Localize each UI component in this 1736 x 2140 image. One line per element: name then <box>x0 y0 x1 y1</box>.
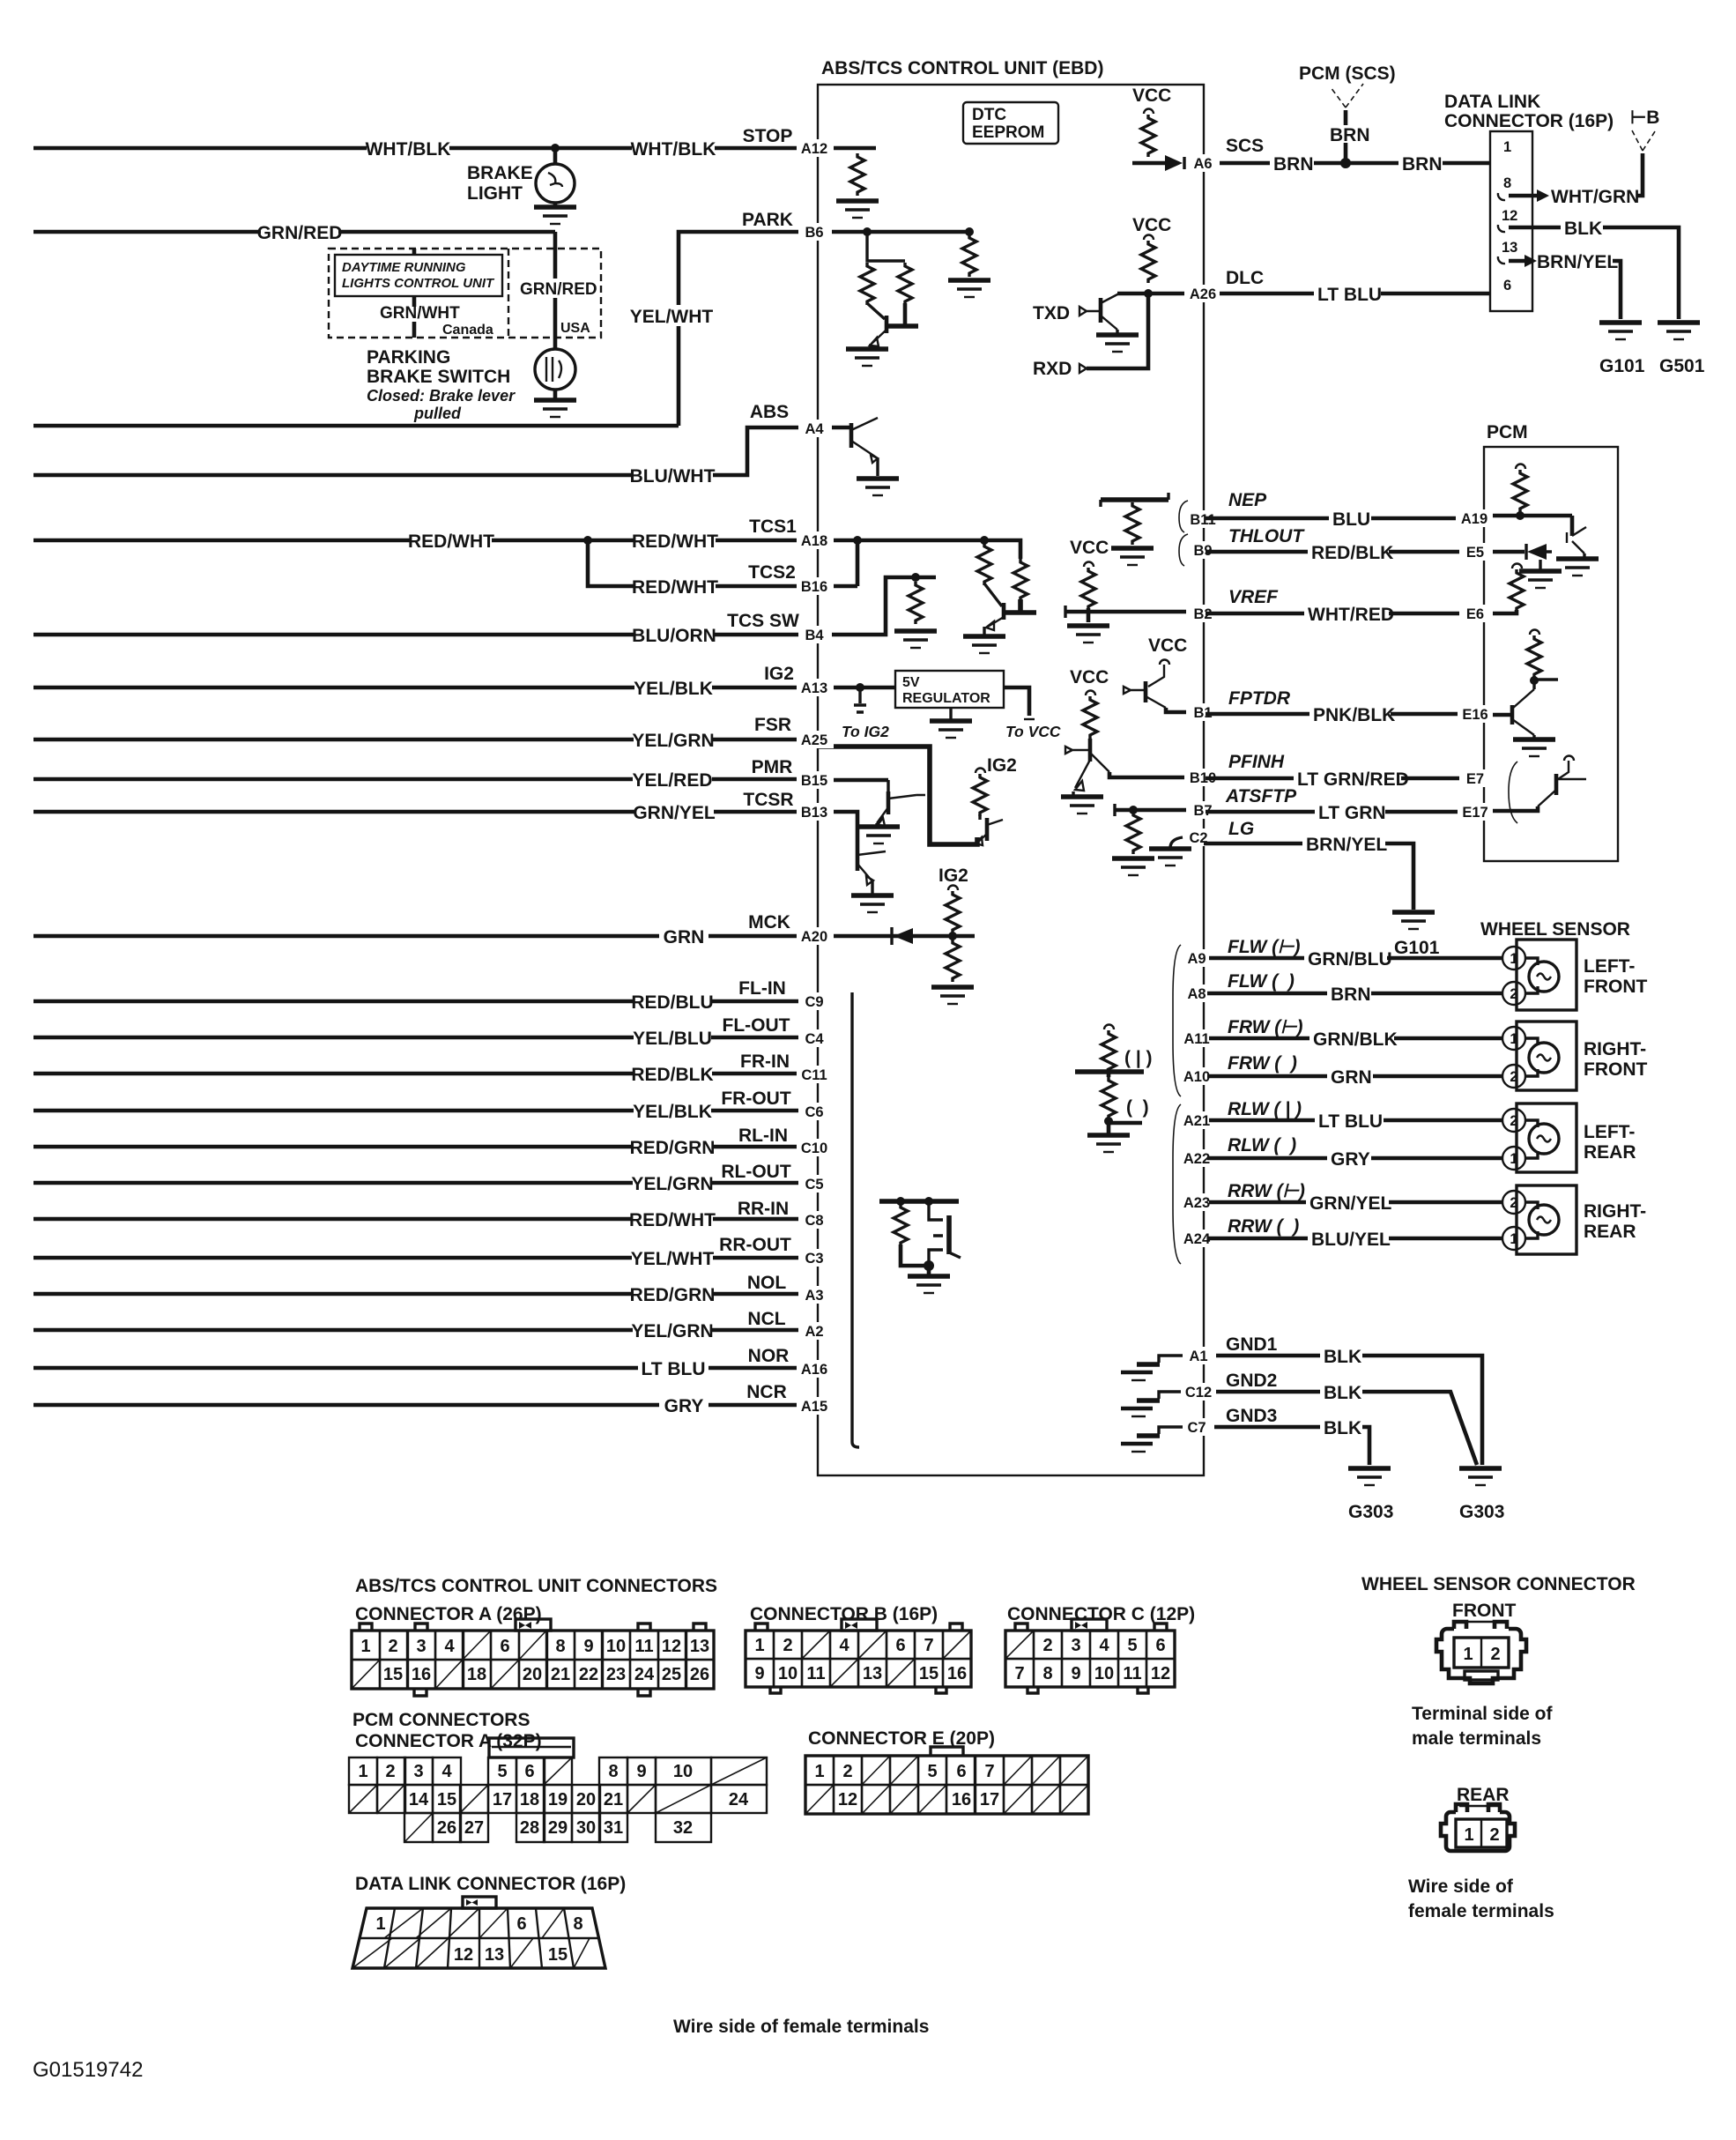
svg-text:LIGHTS CONTROL UNIT: LIGHTS CONTROL UNIT <box>342 276 495 291</box>
wire SCS BRN <box>1220 161 1490 166</box>
ground B11 <box>1111 548 1154 565</box>
svg-text:7: 7 <box>984 1762 994 1781</box>
svg-text:1: 1 <box>375 1914 385 1934</box>
svg-text:9: 9 <box>754 1664 764 1683</box>
transistor Q E7 E17 <box>1564 756 1574 762</box>
label WHT/BLK <box>367 137 449 159</box>
ground A18 transistor <box>963 636 1005 653</box>
svg-text:CONNECTOR E (20P): CONNECTOR E (20P) <box>808 1728 995 1749</box>
svg-text:3: 3 <box>413 1762 423 1781</box>
box 5V regulator <box>895 671 1004 708</box>
label RED/WHT <box>411 530 492 551</box>
svg-text:18: 18 <box>520 1790 539 1809</box>
svg-text:BLK: BLK <box>1324 1418 1361 1438</box>
terminal A3 <box>798 1286 832 1304</box>
wire A25 internal FSR <box>818 747 977 844</box>
svg-text:LT GRN: LT GRN <box>1318 803 1386 823</box>
svg-text:CONNECTOR A (26P): CONNECTOR A (26P) <box>355 1604 542 1624</box>
svg-text:GRN/WHT: GRN/WHT <box>380 304 460 323</box>
terminal B9 <box>1186 541 1220 559</box>
wire regulator to VCC <box>1004 687 1029 716</box>
ground E5 <box>1519 571 1562 588</box>
svg-text:8: 8 <box>1042 1664 1052 1683</box>
svg-text:female terminals: female terminals <box>1408 1901 1554 1921</box>
svg-text:LEFT-: LEFT- <box>1584 1122 1635 1142</box>
label YEL/RED <box>633 769 712 790</box>
svg-text:3: 3 <box>416 1637 426 1656</box>
label RED/WHT <box>634 530 716 551</box>
svg-text:26: 26 <box>437 1818 456 1838</box>
svg-text:A3: A3 <box>805 1288 823 1304</box>
svg-text:21: 21 <box>604 1790 623 1809</box>
svg-text:1: 1 <box>1510 1231 1517 1247</box>
svg-text:REGULATOR: REGULATOR <box>902 691 990 706</box>
connector grid A 26P <box>352 1619 714 1696</box>
svg-text:A16: A16 <box>801 1362 827 1378</box>
transistor Q B6 <box>867 303 885 319</box>
svg-text:14: 14 <box>409 1790 429 1809</box>
svg-text:8: 8 <box>555 1637 565 1656</box>
label USA <box>559 317 594 335</box>
resistor B4 <box>909 582 923 624</box>
svg-text:12: 12 <box>1151 1664 1170 1683</box>
wire LT BLU to A16 NOR <box>33 1366 818 1371</box>
wire GRN/RED <box>33 230 555 234</box>
terminal A2 <box>798 1322 832 1340</box>
svg-text:B4: B4 <box>805 628 824 643</box>
svg-text:8: 8 <box>608 1762 618 1781</box>
svg-text:ABS: ABS <box>750 402 789 422</box>
svg-text:3: 3 <box>1071 1636 1080 1655</box>
svg-text:TCS SW: TCS SW <box>727 611 799 631</box>
ground A12 <box>836 201 879 218</box>
svg-text:GRN/RED: GRN/RED <box>257 223 343 243</box>
svg-text:LT BLU: LT BLU <box>641 1359 705 1379</box>
svg-text:2: 2 <box>1510 1069 1517 1085</box>
svg-text:6: 6 <box>516 1914 526 1934</box>
svg-text:GND3: GND3 <box>1226 1406 1277 1426</box>
terminal A24 <box>1179 1230 1216 1247</box>
label IG2 node <box>976 769 985 774</box>
terminal A22 <box>1179 1149 1216 1167</box>
svg-text:20: 20 <box>523 1665 542 1684</box>
svg-text:B15: B15 <box>801 773 827 789</box>
connector wheel sensor front <box>1436 1622 1526 1683</box>
brace E7 E17 <box>1509 762 1517 823</box>
terminal C10 <box>797 1139 834 1156</box>
svg-text:12: 12 <box>1502 208 1517 224</box>
svg-text:Canada: Canada <box>442 323 493 338</box>
wire RED/GRN to A3 NOL <box>33 1292 818 1297</box>
svg-text:Terminal side of: Terminal side of <box>1412 1704 1553 1724</box>
svg-text:10: 10 <box>606 1637 626 1656</box>
svg-text:YEL/RED: YEL/RED <box>632 770 712 791</box>
svg-text:FR-OUT: FR-OUT <box>721 1089 790 1109</box>
connector cone +B <box>1632 129 1657 151</box>
wire GND1 BLK <box>1216 1356 1482 1465</box>
ground parking brake switch <box>534 400 576 417</box>
terminal E16 <box>1458 705 1493 723</box>
wire A18-B16 link <box>818 540 857 586</box>
svg-text:2: 2 <box>1510 986 1517 1002</box>
wire BRN up to PCM (SCS) <box>1344 110 1348 163</box>
svg-text:GRN/BLK: GRN/BLK <box>1313 1029 1398 1050</box>
svg-text:A10: A10 <box>1183 1069 1210 1085</box>
svg-text:1: 1 <box>1510 1031 1517 1047</box>
svg-text:13: 13 <box>485 1945 504 1965</box>
terminal E7 <box>1459 769 1491 787</box>
svg-text:FL-OUT: FL-OUT <box>723 1015 790 1036</box>
node junction brake light <box>551 144 560 152</box>
wire RED/BLU to C9 FL-IN <box>33 999 818 1004</box>
svg-text:6: 6 <box>895 1636 905 1655</box>
wire B13 internal <box>818 812 857 848</box>
svg-text:RL-IN: RL-IN <box>738 1126 788 1146</box>
wire GND3 BLK <box>1214 1427 1369 1465</box>
wire A6 internal with arrow <box>1132 161 1172 166</box>
terminal A15 <box>797 1397 834 1415</box>
ground E16 <box>1513 739 1555 756</box>
connector DLC trapezoid <box>352 1897 605 1968</box>
ground hook A1 <box>1159 1356 1184 1363</box>
ground B13 <box>851 895 894 912</box>
svg-text:RXD: RXD <box>1033 359 1072 379</box>
svg-text:10: 10 <box>778 1664 798 1683</box>
svg-text:STOP: STOP <box>743 126 793 146</box>
svg-text:GND1: GND1 <box>1226 1334 1278 1355</box>
svg-text:A6: A6 <box>1193 156 1212 172</box>
svg-text:WHT/BLK: WHT/BLK <box>631 139 716 160</box>
placeholder sections appended below <box>33 126 818 1416</box>
box daytime running lights control unit (dashed) <box>329 249 601 338</box>
svg-text:G501: G501 <box>1659 356 1705 376</box>
svg-text:NOL: NOL <box>747 1273 787 1293</box>
svg-text:4: 4 <box>839 1636 849 1655</box>
svg-text:32: 32 <box>673 1818 693 1838</box>
svg-text:RED/WHT: RED/WHT <box>632 577 718 598</box>
wire solenoid cluster bar <box>879 1199 959 1204</box>
svg-text:4: 4 <box>444 1637 455 1656</box>
svg-text:22: 22 <box>579 1665 598 1684</box>
svg-text:2: 2 <box>1510 1113 1517 1129</box>
terminal C11 <box>797 1066 834 1083</box>
svg-text:FLW (⊢): FLW (⊢) <box>1228 937 1300 957</box>
svg-text:IG2: IG2 <box>987 755 1017 776</box>
svg-text:male terminals: male terminals <box>1412 1728 1541 1749</box>
svg-text:To VCC: To VCC <box>1005 723 1061 740</box>
svg-text:YEL/WHT: YEL/WHT <box>630 307 714 327</box>
svg-text:FRONT: FRONT <box>1584 1059 1647 1080</box>
wire YEL/GRN to A2 NCL <box>33 1328 818 1333</box>
svg-text:LT BLU: LT BLU <box>1317 285 1382 305</box>
svg-text:GRY: GRY <box>1331 1149 1370 1170</box>
label BRN <box>1398 153 1443 173</box>
svg-text:4: 4 <box>441 1762 452 1781</box>
svg-text:FRONT: FRONT <box>1584 977 1647 997</box>
wire BLK pin12 <box>1509 227 1679 319</box>
terminal B11 <box>1184 510 1221 528</box>
wire BLU/WHT to A4 ABS <box>33 427 818 475</box>
resistor B10 <box>1083 696 1097 739</box>
svg-text:RED/BLK: RED/BLK <box>1311 543 1393 563</box>
resistor B6 pair right <box>898 263 912 305</box>
svg-text:5: 5 <box>927 1762 937 1781</box>
svg-text:C4: C4 <box>805 1031 824 1047</box>
wire A20 internal MCK <box>818 934 975 939</box>
svg-text:RLW ( ): RLW ( ) <box>1228 1135 1296 1155</box>
resistor E6 <box>1512 564 1522 569</box>
node TCS branch <box>583 536 592 545</box>
ground B10 <box>1061 797 1103 814</box>
svg-text:G303: G303 <box>1348 1502 1393 1522</box>
svg-text:20: 20 <box>576 1790 596 1809</box>
wire brake light drop <box>553 148 558 164</box>
svg-text:LT GRN/RED: LT GRN/RED <box>1297 769 1409 790</box>
label RED/WHT <box>634 576 716 597</box>
svg-text:YEL/GRN: YEL/GRN <box>632 731 714 751</box>
wire A12 internal <box>818 146 876 151</box>
svg-text:VCC: VCC <box>1132 85 1171 106</box>
svg-text:27: 27 <box>464 1818 484 1838</box>
ground TXD <box>1096 335 1139 352</box>
svg-text:A13: A13 <box>801 680 827 696</box>
svg-text:DATA LINK CONNECTOR (16P): DATA LINK CONNECTOR (16P) <box>355 1874 626 1894</box>
svg-text:11: 11 <box>634 1637 653 1656</box>
wire YEL/BLK to C6 FR-OUT <box>33 1109 818 1113</box>
wire ABS long <box>33 424 679 428</box>
svg-text:CONNECTOR B (16P): CONNECTOR B (16P) <box>750 1604 938 1624</box>
svg-text:GND2: GND2 <box>1226 1371 1277 1391</box>
svg-text:WHT/GRN: WHT/GRN <box>1551 187 1639 207</box>
svg-text:RED/WHT: RED/WHT <box>408 531 494 552</box>
svg-text:ABS/TCS CONTROL UNIT (EBD): ABS/TCS CONTROL UNIT (EBD) <box>821 58 1103 78</box>
svg-text:PFINH: PFINH <box>1228 752 1285 772</box>
svg-text:WHEEL SENSOR CONNECTOR: WHEEL SENSOR CONNECTOR <box>1361 1574 1636 1594</box>
resistor A20 lower <box>946 940 960 982</box>
svg-text:FPTDR: FPTDR <box>1228 688 1291 709</box>
svg-text:RRW (⊢): RRW (⊢) <box>1228 1181 1305 1201</box>
svg-text:IG2: IG2 <box>764 664 794 684</box>
svg-text:C3: C3 <box>805 1251 823 1267</box>
svg-text:15: 15 <box>919 1664 938 1683</box>
connector grid E 20P <box>805 1747 1088 1814</box>
terminal C5 <box>798 1175 832 1193</box>
svg-text:2: 2 <box>783 1636 792 1655</box>
wire RED/WHT branch to B16 TCS2 <box>588 540 818 586</box>
svg-text:REAR: REAR <box>1584 1142 1636 1163</box>
terminal C9 <box>798 992 832 1010</box>
svg-text:13: 13 <box>1502 240 1517 256</box>
terminal A4 <box>798 420 832 437</box>
svg-text:2: 2 <box>1042 1636 1052 1655</box>
svg-text:A11: A11 <box>1183 1031 1209 1047</box>
wire GRY to A15 NCR <box>33 1403 818 1408</box>
svg-text:RL-OUT: RL-OUT <box>721 1162 790 1182</box>
svg-text:GRY: GRY <box>664 1396 704 1416</box>
terminal B4 <box>798 626 832 643</box>
svg-text:C10: C10 <box>801 1141 827 1156</box>
svg-text:RRW ( ): RRW ( ) <box>1228 1216 1299 1237</box>
svg-text:A26: A26 <box>1190 286 1216 302</box>
svg-text:LIGHT: LIGHT <box>467 183 523 204</box>
capacitor stub A13 <box>854 687 866 712</box>
svg-text:C8: C8 <box>805 1213 823 1229</box>
svg-text:Closed: Brake lever: Closed: Brake lever <box>367 387 516 405</box>
resistor solenoid <box>894 1204 908 1246</box>
ground C2 <box>1170 837 1183 848</box>
svg-text:FRONT: FRONT <box>1452 1601 1516 1621</box>
ground 5V regulator <box>930 721 972 738</box>
ground G101 <box>1599 323 1642 339</box>
terminal A1 <box>1183 1347 1216 1364</box>
svg-text:1: 1 <box>358 1762 367 1781</box>
svg-text:( | ): ( | ) <box>1124 1048 1153 1068</box>
svg-text:YEL/BLK: YEL/BLK <box>633 1102 712 1122</box>
svg-text:19: 19 <box>548 1790 568 1809</box>
resistor A19 <box>1513 470 1527 512</box>
ground A19 <box>1556 559 1599 576</box>
svg-text:A2: A2 <box>805 1324 823 1340</box>
svg-text:BRN/YEL: BRN/YEL <box>1306 835 1387 855</box>
transistor Q B13 <box>856 848 860 871</box>
terminal A6 <box>1186 154 1220 172</box>
svg-text:NOR: NOR <box>748 1346 790 1366</box>
ground B4 <box>894 631 937 648</box>
wire BLU/ORN to B4 TCS SW <box>33 633 818 637</box>
wire A13 internal <box>818 686 895 690</box>
svg-text:RED/BLK: RED/BLK <box>631 1065 713 1085</box>
svg-text:18: 18 <box>467 1665 486 1684</box>
svg-text:RED/GRN: RED/GRN <box>630 1138 716 1158</box>
svg-text:WHT/RED: WHT/RED <box>1308 605 1394 625</box>
svg-text:31: 31 <box>604 1818 623 1838</box>
terminal C7 <box>1183 1418 1216 1436</box>
svg-text:2: 2 <box>1489 1825 1499 1845</box>
svg-text:YEL/GRN: YEL/GRN <box>631 1321 713 1341</box>
ground G101 LG <box>1392 912 1435 929</box>
svg-text:pulled: pulled <box>413 405 462 422</box>
svg-text:EEPROM: EEPROM <box>972 123 1044 142</box>
wire B4 internal <box>818 577 936 635</box>
terminal E6 <box>1459 605 1491 622</box>
svg-text:C12: C12 <box>1185 1385 1212 1401</box>
terminal A21 <box>1179 1111 1216 1129</box>
diode E5 <box>1493 550 1525 554</box>
svg-text:23: 23 <box>606 1665 626 1684</box>
transistor Q B15 <box>887 780 889 791</box>
wire GND2 BLK <box>1216 1392 1477 1465</box>
svg-text:Wire side of female terminals: Wire side of female terminals <box>673 2017 929 2037</box>
svg-text:13: 13 <box>863 1664 882 1683</box>
svg-text:G01519742: G01519742 <box>33 2058 143 2082</box>
svg-text:4: 4 <box>1099 1636 1109 1655</box>
svg-text:GRN/BLU: GRN/BLU <box>1308 949 1392 970</box>
svg-text:12: 12 <box>838 1790 857 1809</box>
wire YEL/BLK to A13 IG2 <box>33 686 818 690</box>
svg-text:C9: C9 <box>805 994 823 1010</box>
svg-text:15: 15 <box>548 1945 568 1965</box>
svg-text:2: 2 <box>1510 1195 1517 1211</box>
svg-text:2: 2 <box>388 1637 397 1656</box>
svg-text:30: 30 <box>576 1818 596 1838</box>
svg-text:VCC: VCC <box>1132 215 1171 235</box>
terminal E17 <box>1458 803 1493 821</box>
svg-text:E5: E5 <box>1466 545 1484 561</box>
divider dashed USA/Canada <box>508 249 509 338</box>
svg-text:29: 29 <box>548 1818 568 1838</box>
svg-text:12: 12 <box>454 1945 473 1965</box>
resistor A12 pull-down <box>850 153 864 196</box>
resistor B7 <box>1126 812 1140 854</box>
svg-text:E16: E16 <box>1462 707 1487 723</box>
svg-text:BRN/YEL: BRN/YEL <box>1537 252 1618 272</box>
wire LG BRN/YEL <box>1204 843 1413 910</box>
svg-text:PCM CONNECTORS: PCM CONNECTORS <box>352 1710 530 1730</box>
svg-text:BLK: BLK <box>1564 219 1602 239</box>
brace group rear sensors <box>1173 1104 1181 1264</box>
svg-text:RIGHT-: RIGHT- <box>1584 1039 1646 1059</box>
svg-text:LG: LG <box>1228 819 1254 839</box>
svg-text:2: 2 <box>1490 1645 1500 1664</box>
resistor B6 right <box>962 234 976 277</box>
sensor RIGHT-FRONT <box>1517 1022 1576 1090</box>
svg-text:25: 25 <box>662 1665 681 1684</box>
terminal A11 <box>1179 1029 1216 1047</box>
wire YEL/GRN to C5 RL-OUT <box>33 1181 818 1185</box>
ground G303 right <box>1459 1468 1502 1485</box>
svg-text:DAYTIME RUNNING: DAYTIME RUNNING <box>342 260 466 275</box>
wire PARK to B6 <box>679 232 818 426</box>
svg-text:5V: 5V <box>902 675 920 690</box>
label ABS/TCS CONTROL UNIT (EBD) <box>820 58 1075 76</box>
svg-text:FR-IN: FR-IN <box>740 1051 790 1072</box>
svg-text:YEL/BLU: YEL/BLU <box>633 1029 712 1049</box>
label GRN/RED <box>261 221 338 242</box>
wire GRN/YEL to B13 TCSR <box>33 810 818 814</box>
svg-text:PNK/BLK: PNK/BLK <box>1313 705 1395 725</box>
svg-text:PCM (SCS): PCM (SCS) <box>1299 63 1396 84</box>
wire B2 internal <box>1065 610 1204 614</box>
svg-text:G101: G101 <box>1394 938 1440 958</box>
label WHT/BLK <box>632 137 715 159</box>
svg-text:1: 1 <box>1510 951 1517 967</box>
svg-text:1: 1 <box>1503 139 1511 155</box>
wire A26 internal <box>1117 292 1204 296</box>
label BRN <box>1270 153 1314 173</box>
resistor A18 left <box>977 543 991 585</box>
svg-text:RED/WHT: RED/WHT <box>632 531 718 552</box>
svg-text:A18: A18 <box>801 533 827 549</box>
wire GRN/WHT stub <box>412 249 417 338</box>
box data link connector <box>1490 131 1532 311</box>
svg-text:YEL/WHT: YEL/WHT <box>631 1249 715 1269</box>
svg-text:C7: C7 <box>1187 1420 1206 1436</box>
svg-text:FSR: FSR <box>754 715 791 735</box>
svg-text:16: 16 <box>947 1664 967 1683</box>
svg-text:GRN/YEL: GRN/YEL <box>1309 1193 1392 1214</box>
svg-text:C6: C6 <box>805 1104 823 1120</box>
svg-text:A4: A4 <box>805 421 824 437</box>
svg-text:BLK: BLK <box>1324 1347 1361 1367</box>
terminal B6 <box>798 223 832 241</box>
svg-text:G101: G101 <box>1599 356 1645 376</box>
svg-text:A23: A23 <box>1183 1195 1210 1211</box>
svg-text:12: 12 <box>662 1637 681 1656</box>
brace B11 B9 <box>1179 501 1188 566</box>
svg-text:BLU/WHT: BLU/WHT <box>630 466 716 487</box>
svg-text:6: 6 <box>500 1637 509 1656</box>
svg-text:1: 1 <box>360 1637 370 1656</box>
